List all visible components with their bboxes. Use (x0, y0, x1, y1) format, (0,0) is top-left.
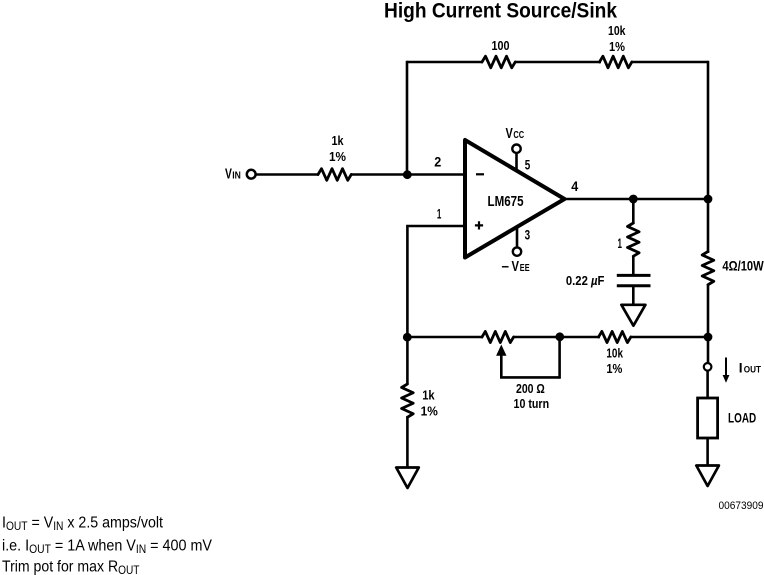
svg-text:1%: 1% (329, 149, 346, 164)
wire top horizontal left segment (407, 61, 483, 64)
svg-text:LM675: LM675 (488, 193, 524, 210)
wire snubber stem lower (632, 286, 635, 305)
wire snubber stem middle (632, 256, 635, 276)
svg-text:–: – (502, 259, 510, 275)
svg-text:LOAD: LOAD (728, 411, 756, 426)
svg-text:1k: 1k (332, 133, 345, 148)
plus input symbol (475, 221, 483, 229)
wire right vertical lower segment (707, 284, 710, 337)
wire terminal to LOAD (706, 371, 709, 400)
svg-text:1%: 1% (609, 39, 625, 54)
node VIN input terminal (247, 170, 256, 179)
resistor R 1 (snubber) (628, 223, 640, 256)
wire wiper U bottom (500, 376, 560, 379)
svg-text:0.22 µF: 0.22 µF (566, 273, 605, 288)
junction node wiper/row (555, 332, 564, 341)
wire top horizontal middle segment (515, 61, 601, 64)
svg-text:1k: 1k (422, 388, 435, 403)
wire bottom row middle segment (513, 336, 600, 339)
wire right vertical top segment (707, 61, 710, 253)
svg-text:2: 2 (434, 154, 441, 170)
node VEE terminal (513, 247, 521, 255)
resistor R 10k 1% (bottom) (599, 331, 631, 342)
svg-text:1: 1 (618, 235, 623, 251)
svg-text:10 turn: 10 turn (514, 396, 550, 411)
op-amp U1 LM675 (465, 140, 565, 258)
wire left branch below row (406, 337, 409, 385)
wire noninverting input with corner down (407, 226, 465, 337)
wire snubber stem upper (632, 199, 635, 224)
svg-text:3: 3 (525, 227, 531, 243)
svg-text:V: V (506, 126, 514, 142)
svg-text:00673909: 00673909 (719, 500, 764, 512)
svg-text:100: 100 (492, 38, 510, 53)
svg-text:4Ω/10W: 4Ω/10W (722, 259, 764, 274)
svg-text:4: 4 (571, 178, 578, 194)
svg-text:10k: 10k (608, 23, 626, 38)
wire VEE stub pin 3 (516, 227, 519, 248)
wire output (563, 198, 708, 201)
svg-text:CC: CC (513, 130, 524, 141)
svg-text:High Current Source/Sink: High Current Source/Sink (384, 0, 617, 23)
junction node VIN/feedback (403, 170, 412, 179)
resistor R 1k 1% (input) (318, 169, 351, 181)
capacitor C 0.22uF plate top (617, 274, 651, 277)
wire left vertical of top loop (406, 61, 409, 175)
ground (left) (396, 468, 419, 489)
svg-text:10k: 10k (606, 346, 623, 361)
ground (load) (696, 466, 719, 487)
svg-text:1%: 1% (606, 361, 622, 376)
wire top horizontal right segment (631, 61, 708, 64)
resistor R 4ohm/10W (702, 252, 714, 285)
pot wiper arrow (500, 354, 503, 377)
svg-text:1: 1 (437, 206, 442, 222)
wire bottom row left segment (407, 336, 483, 339)
wire R1k to inverting input (351, 173, 465, 176)
svg-text:OUT: OUT (744, 365, 761, 376)
capacitor C 0.22uF plate bottom (617, 284, 651, 287)
svg-text:IN: IN (232, 170, 241, 181)
resistor R 10k 1% (top feedback) (600, 56, 632, 68)
wire wiper U right vertical (558, 337, 561, 379)
node VCC terminal (512, 145, 520, 153)
wire LOAD to ground (706, 438, 709, 465)
resistor R 100 (top feedback) (482, 56, 515, 68)
svg-text:V: V (225, 166, 232, 182)
junction node sense/left (403, 333, 412, 342)
load block (698, 398, 718, 438)
wire to left ground (406, 417, 409, 468)
junction node output/snubber (629, 195, 638, 204)
svg-text:1%: 1% (421, 404, 439, 419)
svg-text:V: V (512, 259, 520, 275)
minus input symbol (476, 173, 484, 175)
wire VIN to R1k (256, 173, 319, 176)
wire VCC stub pin 5 (515, 152, 518, 172)
ground (snubber) (621, 305, 645, 326)
node IOUT terminal (704, 363, 712, 371)
potentiometer R 200ohm 10 turn (482, 331, 514, 342)
wire bottom row right segment (631, 336, 709, 339)
wire right branch to IOUT terminal (707, 337, 710, 363)
arrow IOUT (725, 358, 727, 377)
junction node output/right branch (704, 195, 713, 204)
svg-text:EE: EE (520, 263, 530, 274)
svg-text:200 Ω: 200 Ω (516, 381, 545, 396)
svg-text:5: 5 (525, 157, 531, 173)
svg-text:I: I (739, 360, 743, 376)
junction node bottom right (704, 333, 713, 342)
resistor R 1k 1% (ground leg) (402, 384, 414, 417)
